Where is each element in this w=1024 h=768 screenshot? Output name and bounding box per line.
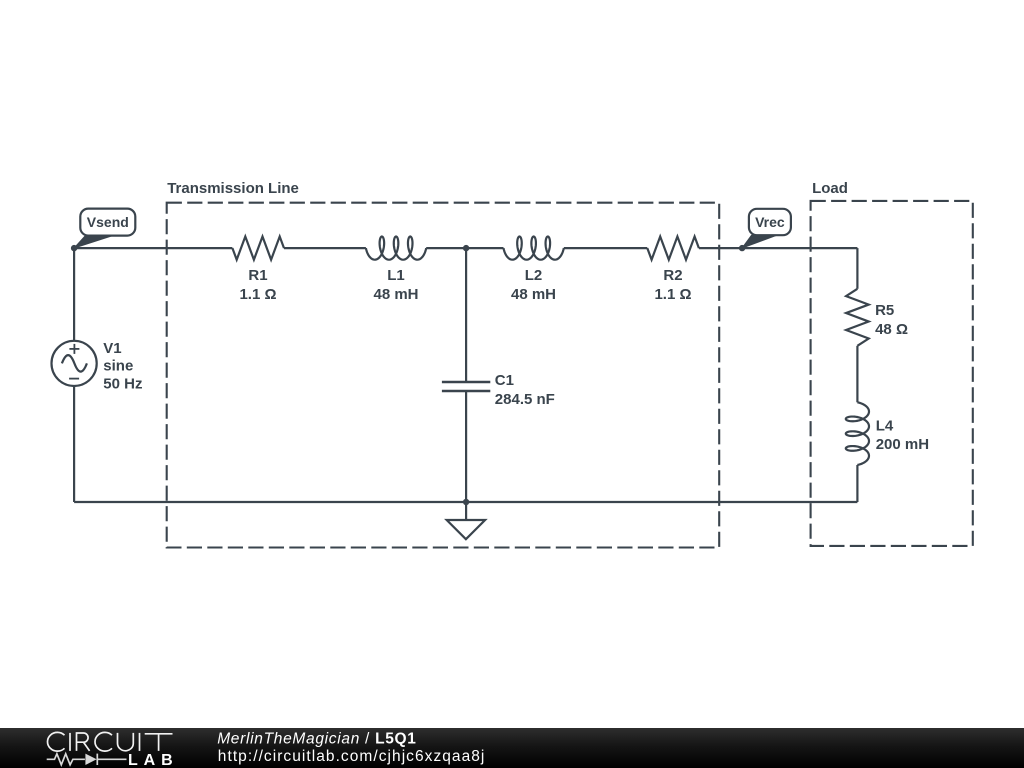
svg-text:L4: L4 (876, 417, 894, 434)
svg-text:Load: Load (812, 180, 848, 197)
wire: L1 to L2 through node C1 (426, 247, 503, 249)
footer logo CIRCUIT (47, 732, 172, 751)
svg-text:1.1 Ω: 1.1 Ω (239, 286, 276, 303)
svg-text:50 Hz: 50 Hz (103, 375, 142, 392)
wire: bottom rail (74, 501, 857, 503)
inductor L1 (366, 237, 426, 260)
inductor L2 (504, 237, 564, 260)
svg-text:1.1 Ω: 1.1 Ω (654, 286, 691, 303)
transmission line enclosure box (167, 203, 720, 548)
net flag Vsend (74, 209, 135, 249)
load enclosure box (811, 201, 973, 546)
wire: R5 to L4 (856, 346, 858, 403)
footer bar (0, 728, 1024, 768)
resistor R5 (846, 289, 869, 346)
wire: capacitor top stub (465, 248, 467, 382)
resistor R2 (647, 237, 699, 260)
wire: L4 to bottom rail (856, 465, 858, 502)
svg-text:Vsend: Vsend (87, 214, 129, 230)
resistor R1 (232, 237, 284, 260)
ground (447, 502, 485, 539)
node C1 top junction (463, 245, 469, 251)
svg-text:Vrec: Vrec (755, 214, 785, 230)
wire: right rail top (to R5) (856, 248, 858, 289)
node Vsend junction (71, 245, 77, 251)
node ground junction (463, 499, 469, 505)
svg-text:200 mH: 200 mH (876, 436, 929, 453)
footer logo resistor-diode glyph (47, 754, 127, 765)
svg-text:48 mH: 48 mH (373, 286, 418, 303)
wire: R2 to load corner (699, 247, 858, 249)
node Vrec junction (739, 245, 745, 251)
svg-text:R1: R1 (248, 267, 267, 284)
inductor L4 (846, 402, 869, 465)
svg-text:Transmission Line: Transmission Line (167, 180, 299, 197)
svg-text:sine: sine (103, 358, 133, 375)
svg-text:R2: R2 (663, 267, 682, 284)
net flag Vrec (742, 209, 791, 248)
wire: left rail V1 top (73, 248, 75, 341)
svg-text:MerlinTheMagician / L5Q1: MerlinTheMagician / L5Q1 (217, 731, 416, 748)
wire: L2 to R2 (564, 247, 648, 249)
wire: top rail Vsend node to R1 (74, 247, 232, 249)
voltage source V1 (52, 341, 97, 386)
wire: R1 to L1 (284, 247, 366, 249)
svg-text:48 mH: 48 mH (511, 286, 556, 303)
svg-text:C1: C1 (495, 372, 514, 389)
svg-text:284.5 nF: 284.5 nF (495, 391, 555, 408)
capacitor C1 (442, 382, 490, 391)
svg-text:R5: R5 (875, 302, 894, 319)
svg-text:V1: V1 (103, 340, 121, 357)
svg-text:LAB: LAB (128, 752, 179, 768)
wire: left rail V1 bottom (73, 386, 75, 502)
svg-text:http://circuitlab.com/cjhjc6xz: http://circuitlab.com/cjhjc6xzqaa8j (218, 748, 486, 765)
svg-text:L1: L1 (387, 267, 405, 284)
svg-text:L2: L2 (525, 267, 543, 284)
wire: capacitor bottom stub (465, 391, 467, 502)
svg-text:48 Ω: 48 Ω (875, 321, 908, 338)
